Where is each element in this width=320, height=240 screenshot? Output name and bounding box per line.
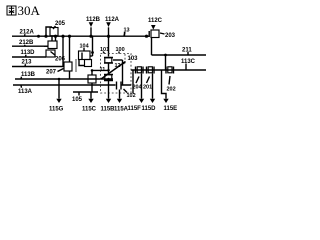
svg-text:13: 13 [124, 28, 130, 34]
svg-text:201: 201 [143, 85, 152, 91]
svg-text:115F: 115F [128, 106, 142, 112]
svg-text:11: 11 [100, 67, 106, 73]
svg-text:30A: 30A [18, 3, 41, 18]
svg-text:113B: 113B [21, 72, 36, 78]
svg-text:113D: 113D [21, 50, 36, 56]
svg-text:115C: 115C [82, 107, 97, 113]
svg-text:101: 101 [100, 47, 109, 53]
svg-text:112A: 112A [105, 17, 120, 23]
svg-text:203: 203 [165, 33, 176, 39]
svg-text:112B: 112B [86, 17, 101, 23]
svg-text:211: 211 [182, 48, 192, 54]
svg-text:100: 100 [116, 47, 125, 53]
svg-text:115B: 115B [101, 107, 116, 113]
svg-text:115E: 115E [164, 106, 178, 112]
svg-text:104: 104 [80, 44, 90, 50]
svg-text:105: 105 [72, 97, 83, 103]
svg-text:12: 12 [115, 63, 121, 69]
svg-text:212B: 212B [19, 40, 34, 46]
svg-text:212A: 212A [20, 30, 35, 36]
svg-text:115G: 115G [49, 107, 64, 113]
svg-text:206: 206 [55, 57, 66, 63]
svg-text:113A: 113A [18, 89, 33, 95]
svg-text:103: 103 [128, 56, 139, 62]
svg-text:202: 202 [167, 87, 176, 93]
svg-text:204: 204 [133, 85, 143, 91]
svg-text:115D: 115D [142, 106, 157, 112]
svg-text:102: 102 [127, 93, 136, 99]
svg-text:112C: 112C [148, 18, 163, 24]
svg-text:213: 213 [22, 60, 33, 66]
svg-text:205: 205 [55, 21, 66, 27]
svg-text:207: 207 [46, 70, 57, 76]
svg-text:113C: 113C [181, 59, 196, 65]
svg-text:115A: 115A [114, 107, 129, 113]
